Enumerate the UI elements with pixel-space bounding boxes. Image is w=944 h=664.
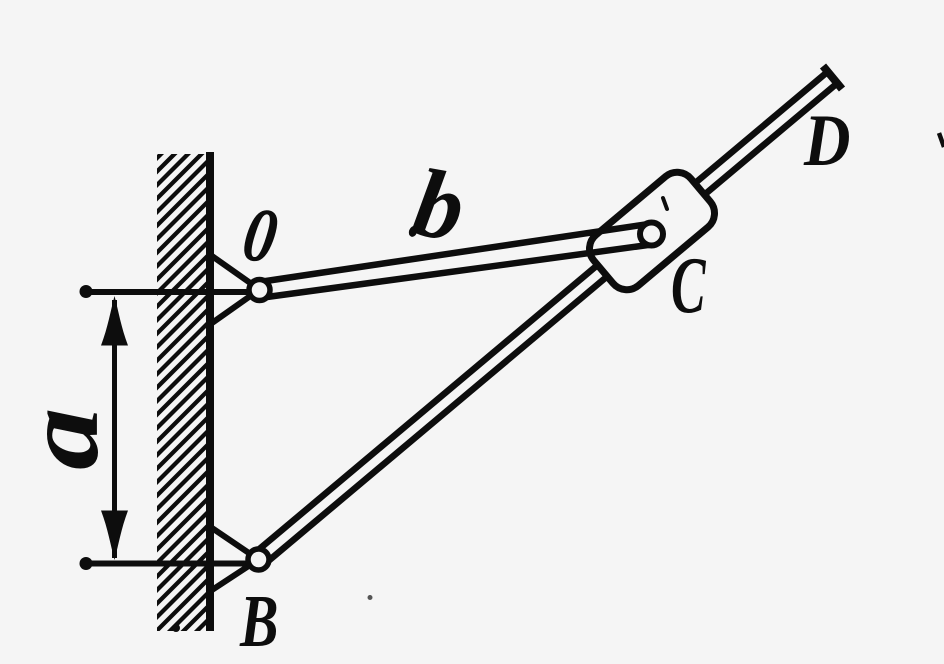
link b upper edge	[258, 224, 650, 282]
svg-text:C: C	[671, 239, 706, 330]
label O	[237, 190, 283, 281]
svg-text:B: B	[239, 581, 278, 662]
pin C	[640, 223, 663, 246]
dimension line a vertical	[112, 300, 117, 558]
stray dot lower middle	[368, 595, 373, 600]
pin B	[248, 549, 269, 570]
bracket at pivot B	[212, 528, 259, 590]
label C	[671, 239, 706, 330]
dimension dot bottom	[80, 557, 93, 570]
stray mark right edge	[939, 133, 944, 147]
label D	[803, 100, 850, 182]
arrowhead up	[101, 296, 128, 346]
svg-text:a: a	[4, 407, 121, 470]
wall hatching	[150, 100, 215, 664]
link b lower edge	[261, 244, 654, 298]
arrowhead down	[101, 511, 128, 561]
rod BD lower edge	[263, 83, 838, 566]
dimension dot top	[80, 285, 93, 298]
dimension extension line bottom	[82, 561, 250, 567]
label B	[239, 581, 278, 662]
wall edge line	[206, 152, 214, 631]
rod BD upper edge	[254, 71, 829, 554]
tick mark inside slider	[663, 198, 667, 209]
bracket at pivot O	[212, 256, 260, 323]
svg-text:D: D	[803, 100, 850, 182]
rod end cap at D	[823, 66, 842, 89]
slider block C	[582, 165, 722, 297]
stray dot wall bottom	[172, 624, 180, 632]
svg-text:b: b	[406, 148, 472, 262]
dimension extension line top	[82, 289, 251, 295]
pin O	[249, 280, 270, 301]
tick under label b	[407, 225, 418, 238]
svg-text:0: 0	[237, 190, 283, 281]
